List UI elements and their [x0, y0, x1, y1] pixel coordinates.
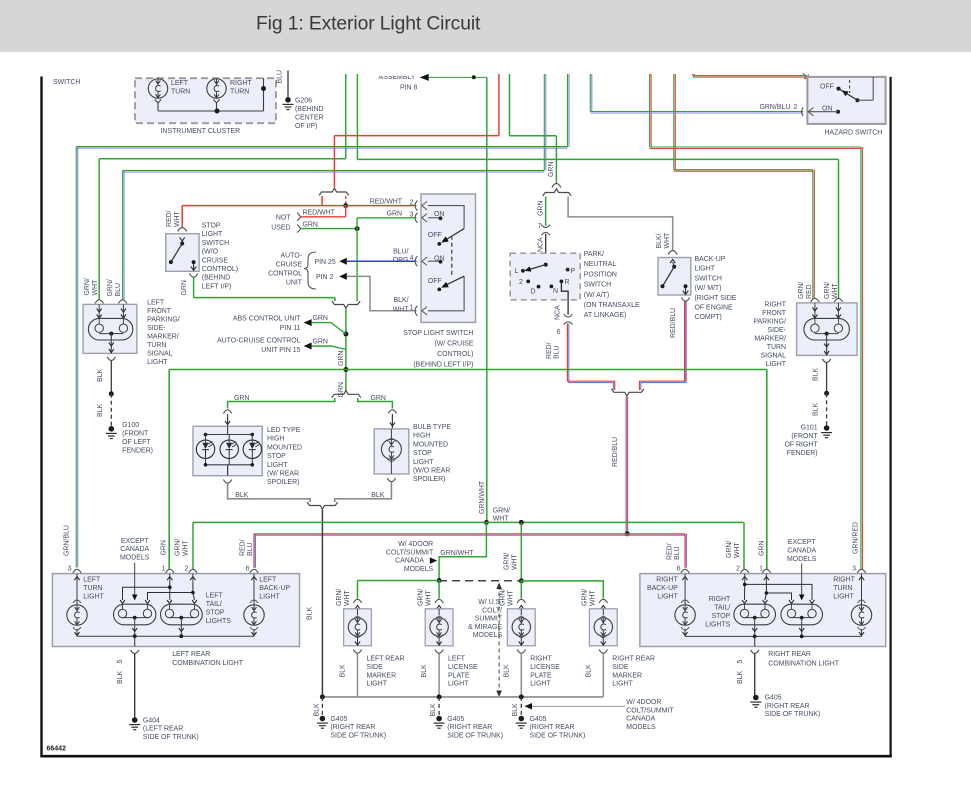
svg-text:GRN: GRN — [548, 162, 555, 177]
label LED stop light — [267, 427, 302, 486]
wire GRN/BLU feeder (turn A) — [568, 74, 570, 147]
wire RED/BLU from back-up switch elbow — [640, 302, 687, 391]
svg-text:PLATE: PLATE — [530, 672, 552, 679]
svg-text:WHT: WHT — [508, 589, 515, 606]
left rear internal wiring pin 2 — [148, 583, 195, 600]
wire BLK from right license light — [520, 654, 522, 697]
svg-text:PIN 2: PIN 2 — [316, 274, 333, 281]
right rear internal wiring pin 1 — [765, 583, 792, 600]
svg-text:PIN 25: PIN 25 — [315, 259, 336, 266]
svg-text:D: D — [531, 289, 536, 296]
svg-text:GRN/: GRN/ — [107, 279, 114, 296]
svg-text:(FRONT: (FRONT — [122, 431, 149, 438]
svg-text:LICENSE: LICENSE — [530, 664, 560, 671]
left rear pin 6 entry — [250, 569, 258, 583]
svg-text:OF LEFT: OF LEFT — [122, 439, 151, 446]
svg-text:COMBINATION LIGHT: COMBINATION LIGHT — [172, 660, 244, 667]
brace split park-neutral feed — [543, 189, 571, 196]
svg-text:G101: G101 — [801, 425, 818, 432]
svg-text:COMPT): COMPT) — [695, 314, 722, 321]
svg-text:POSITION: POSITION — [584, 271, 617, 278]
svg-text:GRN: GRN — [338, 382, 345, 397]
junction dot GRN/WHT at marker branch — [519, 520, 524, 525]
svg-text:BLK: BLK — [503, 664, 510, 677]
svg-text:BLK/: BLK/ — [656, 233, 663, 248]
svg-text:66442: 66442 — [47, 746, 67, 753]
svg-text:(FRONT: (FRONT — [791, 433, 818, 440]
connector left rear pin 5 — [117, 650, 139, 684]
svg-text:LIGHT: LIGHT — [833, 593, 854, 600]
wire GRN main drop — [338, 309, 346, 398]
svg-text:3: 3 — [410, 212, 414, 219]
svg-text:NOT: NOT — [276, 215, 291, 222]
right rear pin 1 entry — [762, 569, 770, 583]
left rear internal ground rail — [77, 634, 254, 646]
svg-text:BLK: BLK — [371, 492, 384, 499]
svg-text:Fig 1: Exterior Light Circuit: Fig 1: Exterior Light Circuit — [256, 14, 481, 35]
svg-text:2: 2 — [519, 279, 523, 286]
hazard switch lever — [839, 88, 860, 102]
S4 contact P — [566, 268, 576, 275]
ground G404 — [129, 717, 198, 741]
svg-text:COLT/SUMMIT: COLT/SUMMIT — [386, 549, 434, 556]
svg-text:BLK: BLK — [585, 664, 592, 677]
instrument cluster box — [135, 78, 276, 135]
right tail/stop stadium B — [781, 600, 823, 636]
label EXCEPT CANADA MODELS (right) — [787, 539, 817, 600]
wire GRN/BLU drop to left front light — [107, 170, 124, 299]
park/neutral switch S4 dashed box — [510, 253, 580, 300]
wire RED/BLU rear lane — [254, 534, 685, 535]
svg-text:SWITCH: SWITCH — [202, 240, 229, 247]
svg-text:BULB TYPE: BULB TYPE — [413, 424, 451, 431]
wire cluster internal return rail — [158, 78, 264, 111]
svg-text:ABS CONTROL UNIT: ABS CONTROL UNIT — [233, 315, 301, 322]
svg-text:4: 4 — [410, 255, 414, 262]
svg-text:TURN: TURN — [171, 89, 190, 96]
svg-text:LIGHTS: LIGHTS — [705, 622, 730, 629]
svg-text:SIDE OF TRUNK): SIDE OF TRUNK) — [530, 732, 586, 739]
svg-text:RED/WHT: RED/WHT — [370, 198, 403, 205]
stop light switch S2 (w/o cruise) box — [166, 223, 238, 291]
wire RED/BLU drop to left pin 6 — [240, 534, 256, 573]
svg-text:LEFT REAR: LEFT REAR — [367, 656, 405, 663]
wire RED/BLU from back-up switch — [670, 302, 686, 382]
wire GRN/RED feeder (rear turn) — [650, 74, 652, 147]
right rear internal wiring pin 2 — [743, 583, 812, 600]
svg-text:(BEHIND LEFT I/P): (BEHIND LEFT I/P) — [413, 362, 473, 369]
connector not-used RED/WHT — [297, 210, 346, 221]
svg-text:BLK: BLK — [117, 671, 124, 684]
svg-text:AUTO-: AUTO- — [281, 252, 302, 259]
svg-text:LEFT: LEFT — [147, 300, 165, 307]
svg-text:CRUISE: CRUISE — [276, 261, 303, 268]
svg-text:STOP: STOP — [206, 609, 225, 616]
svg-text:GRN/: GRN/ — [504, 553, 511, 570]
svg-text:RED/: RED/ — [667, 543, 674, 560]
svg-text:SPOILER): SPOILER) — [413, 476, 445, 483]
svg-text:RED: RED — [806, 284, 813, 299]
label ASSEMBLY (cropped flasher assembly) — [379, 74, 418, 92]
svg-text:STOP: STOP — [413, 450, 432, 457]
hazard switch ON contact — [822, 106, 840, 114]
svg-text:PLATE: PLATE — [448, 672, 470, 679]
svg-text:TAIL/: TAIL/ — [714, 605, 730, 612]
wire GRN to LED stop light — [228, 395, 335, 409]
svg-text:FENDER): FENDER) — [122, 448, 153, 455]
svg-text:LIGHT: LIGHT — [202, 231, 223, 238]
svg-text:MODELS: MODELS — [787, 556, 817, 563]
hazard switch pole link — [849, 80, 851, 93]
svg-text:(RIGHT REAR: (RIGHT REAR — [330, 724, 375, 731]
stop light switch S2 contacts — [169, 237, 197, 270]
label right front light — [753, 301, 786, 368]
svg-text:LIGHT: LIGHT — [695, 266, 716, 273]
svg-text:BACK-UP: BACK-UP — [647, 585, 678, 592]
S4 contact D — [531, 285, 541, 296]
svg-text:HIGH: HIGH — [413, 433, 430, 440]
hazard switch internal return — [858, 77, 874, 100]
svg-text:BLK: BLK — [813, 403, 820, 416]
label W/ 4DOOR COLT/SUMMIT CANADA MODELS (bottom) — [525, 699, 675, 731]
svg-text:NCA: NCA — [555, 305, 562, 320]
svg-text:LIGHT: LIGHT — [612, 681, 633, 688]
svg-text:GRN: GRN — [303, 221, 318, 228]
left rear pin 3 entry — [73, 569, 81, 583]
wire GRN/RED drop to right rear pin 3 — [852, 147, 862, 573]
svg-text:STOP LIGHT SWITCH: STOP LIGHT SWITCH — [403, 330, 473, 337]
svg-text:GRN/WHT: GRN/WHT — [479, 480, 486, 514]
svg-text:MODELS: MODELS — [120, 555, 150, 562]
junction dot GRN/WHT lane start — [484, 520, 489, 525]
svg-text:MOUNTED: MOUNTED — [267, 444, 302, 451]
svg-text:RED/BLU: RED/BLU — [670, 308, 677, 338]
svg-text:WHT: WHT — [426, 589, 433, 606]
svg-text:OF I/P): OF I/P) — [295, 123, 317, 130]
svg-text:BLU/: BLU/ — [393, 249, 408, 256]
junction dot GRN at parking lane — [343, 367, 348, 372]
label W/ 4DOOR COLT/SUMMIT CANADA MODELS (west) — [386, 541, 437, 573]
svg-text:2: 2 — [410, 200, 414, 207]
svg-text:OF RIGHT: OF RIGHT — [784, 442, 818, 449]
svg-text:ORG: ORG — [393, 257, 409, 264]
svg-text:RED/: RED/ — [546, 342, 553, 359]
svg-text:SPOILER): SPOILER) — [267, 479, 299, 486]
svg-text:WHT: WHT — [344, 589, 351, 606]
svg-text:SIGNAL: SIGNAL — [761, 352, 787, 359]
svg-text:UNIT: UNIT — [286, 279, 303, 286]
auto-cruise control unit U1 label — [268, 252, 316, 289]
label left front light — [147, 300, 180, 367]
svg-text:WHT: WHT — [664, 232, 671, 249]
svg-text:BLU: BLU — [247, 543, 254, 557]
svg-text:W/ 4DOOR: W/ 4DOOR — [626, 699, 661, 706]
svg-text:RED/BLU: RED/BLU — [612, 437, 619, 467]
svg-text:RED/WHT: RED/WHT — [303, 210, 336, 217]
svg-text:G405: G405 — [765, 695, 782, 702]
wire GRN/WHT drop to left pin 2 — [175, 522, 194, 572]
label diagram number 66442 — [47, 746, 67, 753]
hazard switch OFF contact — [820, 84, 841, 91]
wire RED/WHT lane — [334, 135, 499, 137]
label EXCEPT CANADA MODELS (left) — [120, 538, 150, 601]
svg-text:CONTROL): CONTROL) — [202, 266, 238, 273]
right rear pin 2 entry — [741, 569, 749, 583]
junction dot RED/WHT — [343, 203, 348, 208]
svg-text:LIGHT: LIGHT — [259, 593, 280, 600]
svg-text:2: 2 — [185, 566, 189, 573]
lamp LEFT BACK-UP LIGHT — [244, 576, 291, 636]
svg-text:LIGHT: LIGHT — [530, 681, 551, 688]
svg-text:STOP: STOP — [202, 223, 221, 230]
junction dot RED/BLU lane — [625, 531, 630, 536]
svg-text:NCA: NCA — [538, 237, 545, 252]
right rear combination light box — [640, 574, 886, 668]
ground G405 (trunk right wire) — [512, 697, 585, 740]
svg-text:3: 3 — [852, 566, 856, 573]
svg-text:2: 2 — [794, 104, 798, 111]
svg-text:GRN: GRN — [387, 211, 402, 218]
svg-text:TURN: TURN — [833, 585, 852, 592]
svg-text:TURN: TURN — [767, 344, 786, 351]
wire GRN/WHT drop to right pin 2 — [726, 522, 744, 572]
svg-text:6: 6 — [246, 566, 250, 573]
wire GRN/WHT link from flasher assembly PIN 8 — [420, 74, 487, 81]
wire RED/WHT corner to brace — [333, 136, 335, 188]
wire GRN/WHT to left marker light — [336, 581, 358, 607]
svg-text:BLK: BLK — [421, 664, 428, 677]
S4 pin 6 connector — [546, 314, 573, 359]
connector below S2 — [189, 274, 197, 278]
svg-text:STOP: STOP — [267, 453, 286, 460]
svg-text:MOUNTED: MOUNTED — [413, 441, 448, 448]
svg-text:BACK-UP: BACK-UP — [695, 256, 726, 263]
ground G101 — [784, 425, 832, 458]
wire BLK from right front light — [813, 363, 827, 394]
lamp RIGHT TURN LIGHT — [833, 576, 871, 636]
svg-text:LIGHT: LIGHT — [367, 681, 388, 688]
wire BLK from right marker light — [602, 654, 604, 697]
wire GRN/WHT to left license light — [418, 581, 440, 607]
svg-text:TURN: TURN — [147, 342, 166, 349]
ground G100 — [106, 422, 153, 455]
svg-text:RIGHT: RIGHT — [709, 596, 731, 603]
svg-text:SIDE OF TRUNK): SIDE OF TRUNK) — [447, 732, 503, 739]
svg-text:(W/ A/T): (W/ A/T) — [584, 292, 609, 299]
svg-text:SIDE-: SIDE- — [767, 327, 786, 334]
svg-text:GRN/RED: GRN/RED — [853, 522, 860, 554]
svg-text:(W/ REAR: (W/ REAR — [267, 471, 299, 478]
svg-text:OF ENGINE: OF ENGINE — [695, 305, 734, 312]
svg-text:GRN: GRN — [313, 338, 328, 345]
svg-text:RIGHT: RIGHT — [833, 576, 855, 583]
ground G405 (trunk center wire) — [430, 697, 503, 740]
wire GRN/RED lane (rear turn) — [650, 147, 861, 149]
svg-text:G405: G405 — [530, 716, 547, 723]
lamp right front parking/side-marker/turn signal light — [797, 298, 858, 362]
svg-text:(W/O REAR: (W/O REAR — [413, 468, 450, 475]
S3 pin 2 entry — [415, 201, 427, 211]
svg-text:PARKING/: PARKING/ — [753, 318, 786, 325]
S3 pin 3 entry — [415, 213, 427, 223]
svg-text:PIN 8: PIN 8 — [400, 85, 417, 92]
svg-text:CANADA: CANADA — [395, 558, 424, 565]
svg-text:RIGHT REAR: RIGHT REAR — [768, 651, 811, 658]
wire GRN to pin 3 — [357, 211, 416, 229]
svg-text:N: N — [553, 288, 558, 295]
junction dot marker lane west — [437, 578, 442, 583]
wire BLK to G405 right — [754, 654, 756, 695]
junction dot marker lane east — [519, 578, 524, 583]
wire GRN/WHT lane west — [99, 158, 346, 160]
svg-text:2: 2 — [736, 566, 740, 573]
svg-text:NEUTRAL: NEUTRAL — [584, 261, 617, 268]
brace merge RED/BLU — [612, 389, 644, 396]
lamp RIGHT BACK-UP LIGHT — [647, 576, 695, 636]
svg-text:SWITCH: SWITCH — [584, 282, 611, 289]
svg-text:G206: G206 — [295, 98, 312, 105]
svg-text:CONTROL): CONTROL) — [437, 351, 473, 358]
wire RED/WHT feeder — [498, 74, 500, 136]
wire GRN from S2 — [181, 278, 335, 302]
svg-text:LIGHT: LIGHT — [83, 593, 104, 600]
lamp left rear side marker light — [340, 599, 405, 687]
label NOT USED — [271, 215, 291, 232]
right tail/stop stadium A — [734, 600, 776, 636]
svg-text:SIDE: SIDE — [612, 664, 629, 671]
connector GRN above park/neutral brace — [552, 184, 561, 188]
svg-text:TURN: TURN — [230, 89, 249, 96]
wire GRN drop to right pin 1 — [759, 370, 767, 573]
junction dot GRN at ABS branch — [343, 332, 348, 337]
svg-text:FRONT: FRONT — [762, 310, 787, 317]
svg-text:TURN: TURN — [83, 585, 102, 592]
svg-text:CRUISE: CRUISE — [202, 257, 229, 264]
dashed arrow between model variants — [496, 583, 502, 698]
svg-text:BLU: BLU — [277, 70, 284, 84]
svg-text:BLK: BLK — [813, 368, 820, 381]
svg-text:AUTO-CRUISE CONTROL: AUTO-CRUISE CONTROL — [217, 338, 301, 345]
wire dashed link marker lane — [439, 580, 521, 582]
wire GRN feeder (to stop light splice) — [509, 74, 511, 136]
ground G206 — [283, 97, 324, 130]
brace merge BLK stop lights — [307, 502, 338, 509]
svg-text:BLK: BLK — [97, 404, 104, 417]
svg-text:LIGHT: LIGHT — [766, 361, 787, 368]
svg-text:OFF: OFF — [428, 232, 442, 239]
svg-text:G100: G100 — [122, 422, 139, 429]
svg-text:RIGHT: RIGHT — [764, 301, 786, 308]
svg-text:CANADA: CANADA — [626, 716, 655, 723]
wire GRN/WHT rear lane — [193, 507, 744, 522]
lamp bulb type high mounted stop light — [374, 410, 409, 474]
svg-text:USED: USED — [271, 225, 290, 232]
S3 pole link — [451, 236, 453, 276]
svg-text:WHT: WHT — [493, 515, 510, 522]
wire RED/WHT dashed stub — [345, 196, 347, 206]
svg-text:LEFT: LEFT — [206, 592, 224, 599]
wire BLU to G206 — [277, 70, 289, 97]
right rear internal ground rail — [685, 635, 861, 647]
svg-text:3: 3 — [68, 566, 72, 573]
wire BLK from left license light — [438, 654, 440, 697]
svg-text:BLK: BLK — [235, 492, 248, 499]
svg-text:BLK: BLK — [314, 703, 321, 716]
S5 contacts — [661, 260, 689, 295]
svg-text:P: P — [571, 268, 576, 275]
wire GRN/WHT drop to right front light — [824, 159, 839, 299]
svg-text:BLK: BLK — [512, 703, 519, 716]
svg-text:GRN/: GRN/ — [726, 541, 733, 558]
svg-text:BLK: BLK — [307, 607, 314, 620]
svg-text:WHT: WHT — [512, 553, 519, 570]
svg-text:SIDE OF TRUNK): SIDE OF TRUNK) — [330, 732, 386, 739]
junction dot ground bus east — [519, 694, 524, 699]
svg-text:& MIRAGE: & MIRAGE — [468, 624, 502, 631]
wire BLK from left marker light — [357, 654, 359, 697]
svg-text:GRN/: GRN/ — [418, 589, 425, 606]
lamp LEFT TURN (instrument cluster) — [148, 79, 190, 111]
svg-text:MARKER/: MARKER/ — [754, 335, 786, 342]
S4 wire from R — [555, 281, 569, 320]
left rear pin 2 entry — [189, 569, 197, 583]
svg-text:MODELS: MODELS — [404, 566, 434, 573]
svg-text:6: 6 — [557, 329, 561, 336]
lamp RIGHT TURN (instrument cluster) — [207, 79, 253, 111]
park/neutral switch label — [584, 251, 640, 319]
svg-text:6: 6 — [677, 566, 681, 573]
connector below S5 — [681, 298, 689, 302]
svg-text:BLK: BLK — [340, 664, 347, 677]
svg-text:SIDE OF TRUNK): SIDE OF TRUNK) — [765, 711, 821, 718]
svg-text:LIGHT: LIGHT — [267, 462, 288, 469]
svg-text:BLU: BLU — [554, 346, 561, 360]
S4 contact N — [550, 285, 559, 296]
ground G405 (trunk left wire) — [314, 697, 387, 740]
svg-text:BLK/: BLK/ — [393, 297, 408, 304]
svg-text:LEFT: LEFT — [83, 576, 101, 583]
svg-text:TAIL/: TAIL/ — [206, 601, 222, 608]
wire GRN/RED feeder (hazard OFF) — [693, 74, 695, 76]
connector AUTO-CRUISE CONTROL UNIT PIN 15 — [217, 338, 346, 355]
svg-text:BLK: BLK — [737, 671, 744, 684]
svg-text:WHT: WHT — [393, 307, 410, 314]
svg-text:GRN/BLU: GRN/BLU — [760, 104, 791, 111]
svg-text:PARK/: PARK/ — [584, 251, 604, 258]
svg-text:LICENSE: LICENSE — [448, 664, 478, 671]
svg-text:PIN 11: PIN 11 — [280, 325, 301, 332]
svg-text:FENDER): FENDER) — [787, 450, 818, 457]
wire GRN feeder left (to GRN/WHT lane west) — [345, 74, 347, 159]
svg-text:GRN/: GRN/ — [175, 539, 182, 556]
svg-text:WHT: WHT — [832, 282, 839, 299]
wire RED/BLU stem to rear lane — [612, 397, 628, 534]
wire BLK dashed to G100 — [97, 394, 111, 426]
junction dot ground bus west — [320, 694, 325, 699]
svg-text:SIGNAL: SIGNAL — [147, 351, 173, 358]
svg-text:MARKER: MARKER — [612, 672, 642, 679]
svg-text:SWITCH: SWITCH — [695, 275, 722, 282]
svg-text:COLT/SUMMIT: COLT/SUMMIT — [626, 707, 674, 714]
svg-text:LIGHTS: LIGHTS — [206, 618, 231, 625]
wire GRN/WHT branch to right license — [504, 522, 522, 581]
brace split GRN stop lights — [332, 391, 361, 398]
svg-text:(BEHIND: (BEHIND — [202, 275, 231, 282]
wire GRN/BLU lane B — [123, 170, 545, 172]
wire BLK from bulb light — [335, 482, 392, 502]
wire RED/BLU drop to right pin 6 — [667, 534, 687, 573]
svg-text:GRN: GRN — [538, 201, 545, 216]
